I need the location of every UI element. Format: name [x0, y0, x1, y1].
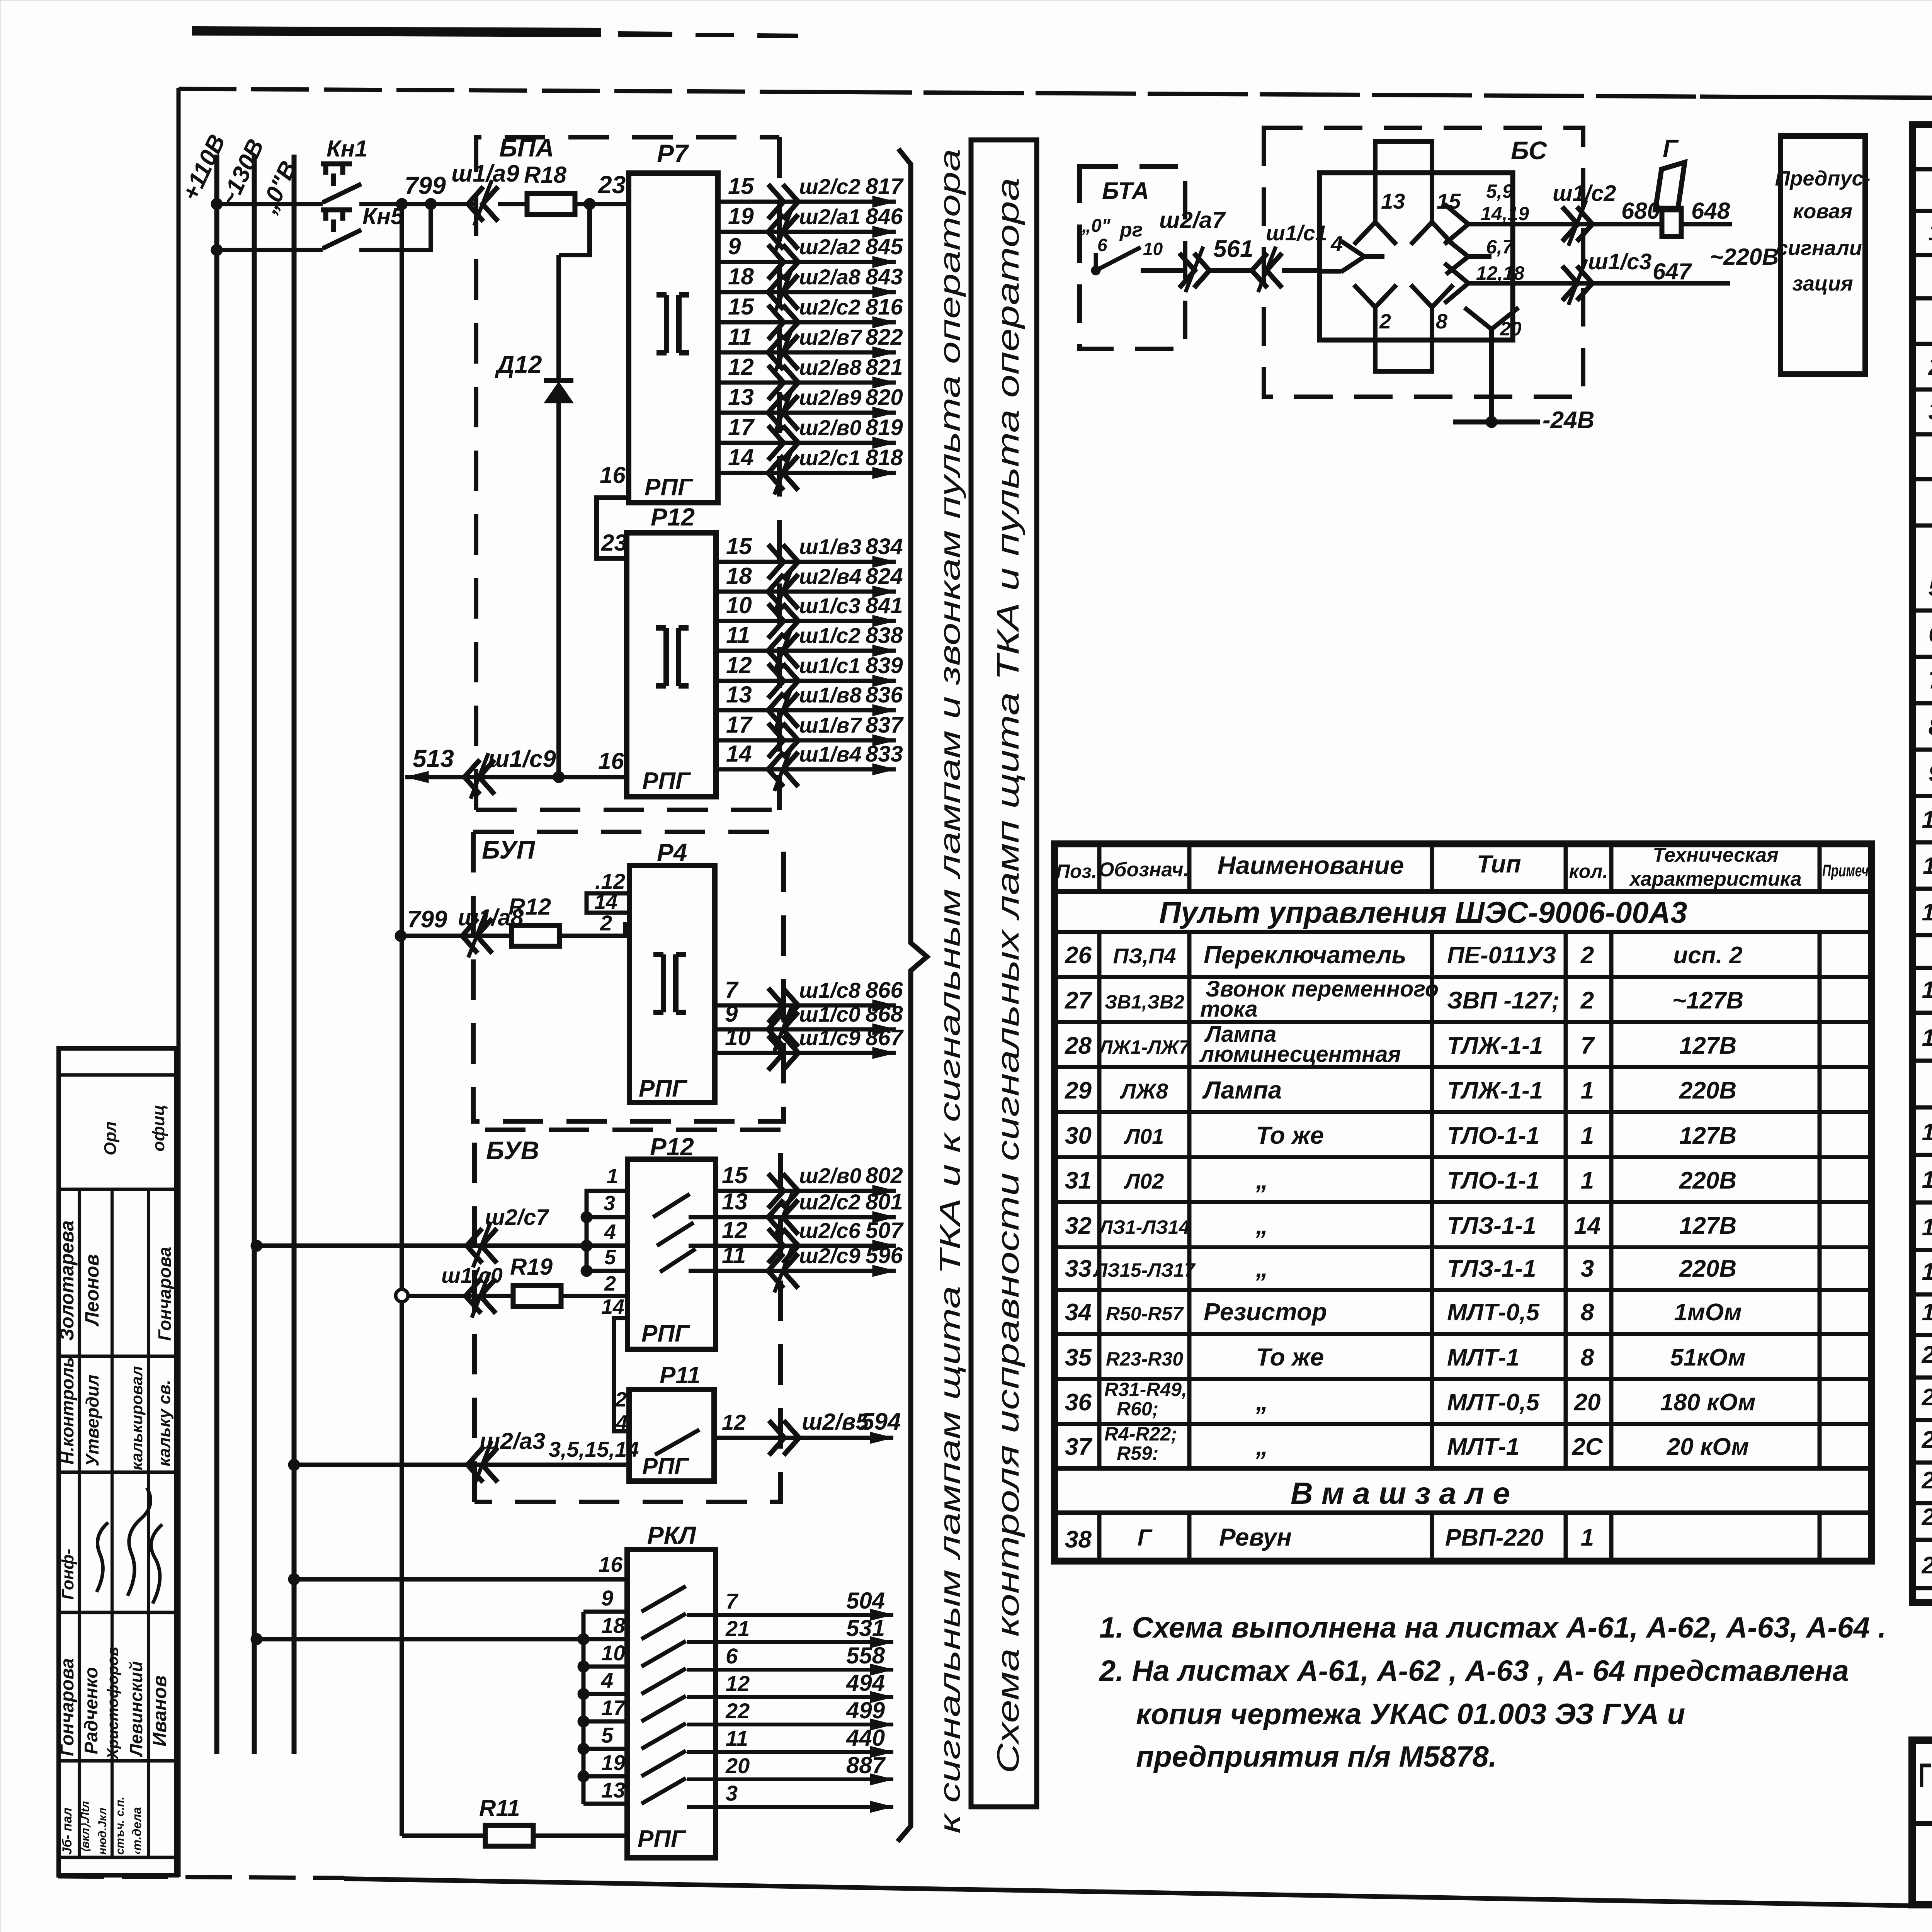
svg-text:Резистор: Резистор	[1204, 1298, 1327, 1326]
wire 0V bus to RKL pin16	[288, 1573, 300, 1585]
svg-text:13: 13	[728, 384, 754, 410]
svg-text:1. Схема выполнена на листа: 1. Схема выполнена на листах А-61, А-62,…	[1099, 1611, 1886, 1644]
bus "0"V	[292, 155, 297, 1754]
svg-text:РВП-220: РВП-220	[1445, 1524, 1544, 1551]
svg-text:9: 9	[601, 1586, 613, 1610]
wire sh2/a3 from bus to P11	[288, 1459, 300, 1471]
svg-text:Гонф-: Гонф-	[58, 1549, 77, 1600]
svg-text:18: 18	[601, 1613, 626, 1638]
svg-text:Переключатель: Переключатель	[1204, 941, 1406, 969]
svg-text:817: 817	[866, 174, 904, 199]
wire +110V to Kn1	[217, 202, 323, 206]
svg-text:31: 31	[1065, 1167, 1092, 1194]
resistor R11 wire	[402, 1833, 488, 1838]
revision stamp table	[59, 1048, 177, 1875]
svg-text:Гончарова: Гончарова	[155, 1247, 175, 1341]
bus +110V	[214, 155, 219, 1754]
svg-text:4: 4	[616, 1411, 628, 1434]
svg-text:801: 801	[866, 1189, 903, 1214]
svg-text:БУП: БУП	[482, 835, 536, 864]
connector arrow sh1/a9	[468, 187, 498, 221]
svg-text:Н.контроль: Н.контроль	[57, 1357, 77, 1464]
BS bottom loop	[1375, 340, 1432, 371]
svg-text:24: 24	[1922, 1504, 1932, 1531]
svg-text:6: 6	[1097, 235, 1107, 255]
svg-text:ш2/а7: ш2/а7	[1159, 207, 1226, 233]
wire ш2/с2 816 (pin 15)	[718, 320, 896, 325]
title block frame	[1912, 1740, 1932, 1905]
svg-text:Р12: Р12	[650, 1133, 694, 1161]
pushbutton Kn1	[323, 184, 361, 202]
svg-text:531: 531	[846, 1615, 885, 1641]
svg-text:кальку св.: кальку св.	[155, 1380, 174, 1466]
relay P12 box (BPA)	[627, 533, 716, 797]
wire sh1/a9 to R18	[498, 202, 527, 206]
svg-text:1: 1	[607, 1165, 618, 1188]
wire ш2/а8 843 (pin 18)	[718, 290, 896, 294]
svg-text:11: 11	[728, 324, 752, 350]
svg-text:ш2/а1: ш2/а1	[799, 204, 861, 229]
svg-text:ш2/в8: ш2/в8	[799, 355, 862, 379]
svg-text:4: 4	[604, 1220, 616, 1243]
wire ш1/в8 836 (pin 13)	[716, 708, 896, 713]
svg-text:868: 868	[866, 1002, 903, 1027]
svg-text:648: 648	[1691, 198, 1730, 224]
svg-text:РПГ: РПГ	[642, 1453, 690, 1479]
svg-text:6,7: 6,7	[1486, 236, 1514, 258]
wire node799 drop to R11	[400, 204, 404, 1291]
svg-text:799: 799	[405, 172, 446, 199]
wire ш2/в0 802 (pin 15)	[716, 1189, 896, 1193]
svg-text:2: 2	[1928, 354, 1932, 380]
svg-text:12: 12	[722, 1217, 748, 1243]
svg-text:ш2/с2: ш2/с2	[799, 174, 861, 199]
svg-text:16: 16	[599, 1552, 623, 1577]
svg-text:.12: .12	[595, 869, 625, 893]
svg-text:Техническая: Техническая	[1653, 844, 1778, 866]
BS fork 6,7	[1446, 239, 1492, 274]
svg-text:2. На листах А-61, А-62 , А-: 2. На листах А-61, А-62 , А-63 , А- 64 п…	[1099, 1655, 1849, 1687]
svg-text:ЗВ1,ЗВ2: ЗВ1,ЗВ2	[1105, 991, 1184, 1013]
resistor R18	[527, 194, 575, 214]
svg-text:Тип: Тип	[1477, 850, 1521, 878]
svg-text:17: 17	[728, 414, 755, 440]
svg-text:1: 1	[1581, 1167, 1594, 1194]
svg-text:R23-R30: R23-R30	[1106, 1348, 1183, 1370]
svg-text:11: 11	[1923, 853, 1932, 879]
svg-text:15: 15	[726, 533, 752, 559]
stamp signatures scribbles	[128, 1488, 151, 1596]
svg-text:ш2/с1: ш2/с1	[799, 446, 861, 470]
svg-text:ЛЖ1-ЛЖ7: ЛЖ1-ЛЖ7	[1098, 1036, 1190, 1058]
svg-text:18: 18	[726, 563, 752, 589]
svg-text:14: 14	[726, 741, 752, 767]
svg-text:ТЛЗ-1-1: ТЛЗ-1-1	[1447, 1213, 1536, 1239]
svg-text:ПЗ,П4: ПЗ,П4	[1113, 944, 1176, 968]
svg-text:9: 9	[1929, 760, 1932, 787]
svg-text:866: 866	[866, 978, 903, 1003]
svg-text:R31-R49,: R31-R49,	[1104, 1379, 1187, 1400]
svg-text:3: 3	[726, 1781, 738, 1805]
svg-text:ш1/в7: ш1/в7	[799, 713, 862, 737]
svg-text:20: 20	[725, 1753, 750, 1778]
wire ш1/с2 838 (pin 11)	[716, 649, 896, 653]
P12(BUV) left pin collector	[587, 1191, 628, 1271]
svg-text:МЛТ-1: МЛТ-1	[1447, 1344, 1519, 1371]
svg-text:Левинский: Левинский	[126, 1661, 146, 1757]
BS inner box	[1320, 173, 1513, 340]
svg-text:20: 20	[1500, 318, 1522, 340]
svg-text:833: 833	[866, 742, 903, 767]
svg-text:504: 504	[846, 1588, 885, 1614]
svg-text:13: 13	[1381, 189, 1405, 213]
svg-text:ш2/с2: ш2/с2	[799, 295, 861, 319]
svg-text:ковая: ковая	[1793, 200, 1852, 223]
svg-text:821: 821	[866, 355, 903, 380]
node 799 on drop wire	[395, 930, 406, 942]
svg-text:ш2/с9: ш2/с9	[799, 1243, 861, 1268]
wire ш1/с1 839 (pin 12)	[716, 679, 896, 683]
svg-text:R50-R57: R50-R57	[1106, 1303, 1184, 1325]
svg-text:рг: рг	[1119, 219, 1143, 241]
svg-text:8: 8	[1929, 714, 1932, 740]
svg-text:R19: R19	[510, 1254, 553, 1280]
svg-text:2: 2	[1580, 942, 1594, 969]
svg-text:ш2/с6: ш2/с6	[799, 1218, 861, 1243]
svg-text:R18: R18	[524, 162, 567, 188]
svg-text:818: 818	[866, 445, 903, 470]
svg-text:5: 5	[601, 1723, 614, 1747]
box pre-start signalling	[1781, 136, 1865, 374]
svg-text:R11: R11	[479, 1795, 520, 1821]
svg-text:Р12: Р12	[651, 503, 695, 531]
svg-text:819: 819	[866, 415, 903, 440]
svg-text:ш1/с9: ш1/с9	[799, 1026, 861, 1050]
svg-text:2: 2	[600, 911, 612, 935]
wire +110V to Kn5	[217, 248, 323, 252]
svg-text:22: 22	[725, 1699, 750, 1723]
svg-text:БПА: БПА	[499, 133, 554, 162]
svg-text:17: 17	[601, 1696, 626, 1720]
BS fork 5,9 14,19	[1444, 204, 1499, 244]
svg-text:23: 23	[601, 530, 627, 556]
svg-text:ТЛО-1-1: ТЛО-1-1	[1447, 1167, 1539, 1194]
svg-text:ш2/в7: ш2/в7	[799, 325, 862, 349]
svg-text:Золотарева: Золотарева	[56, 1220, 78, 1341]
svg-text:28: 28	[1065, 1032, 1092, 1059]
P7 pin16 to P12 pin23 jog wire	[597, 498, 629, 558]
svg-text:офиц: офиц	[149, 1105, 168, 1151]
svg-text:18: 18	[728, 264, 754, 289]
svg-text:~127В: ~127В	[1672, 987, 1743, 1014]
relay P11 box	[629, 1389, 714, 1481]
svg-text:15: 15	[728, 173, 754, 199]
svg-text:846: 846	[866, 204, 903, 229]
svg-text:11: 11	[726, 1726, 748, 1750]
contact symbol P4	[653, 954, 686, 1012]
svg-text:РКЛ: РКЛ	[647, 1521, 697, 1549]
svg-text:ЗВП -127;: ЗВП -127;	[1447, 987, 1560, 1014]
svg-text:838: 838	[866, 623, 903, 648]
svg-text:ш2/в4: ш2/в4	[799, 564, 861, 588]
svg-text:4: 4	[601, 1668, 613, 1692]
BS pin20 to -24V	[1489, 340, 1494, 422]
svg-text:499: 499	[846, 1697, 885, 1723]
svg-text:843: 843	[866, 264, 903, 289]
svg-text:ш1/в4: ш1/в4	[799, 742, 861, 766]
svg-text:21: 21	[1922, 1384, 1932, 1411]
svg-text:13: 13	[726, 682, 752, 707]
node on +110V bus (wire to Kn1)	[211, 198, 223, 210]
svg-text:8: 8	[1581, 1344, 1594, 1371]
svg-text:Радченко: Радченко	[81, 1667, 102, 1754]
svg-text:802: 802	[866, 1163, 903, 1188]
BS top loop	[1375, 141, 1432, 173]
svg-text:836: 836	[866, 682, 903, 707]
svg-text:„: „	[1255, 1166, 1268, 1194]
svg-text:ш1/с0: ш1/с0	[799, 1002, 861, 1026]
svg-text:12: 12	[722, 1410, 746, 1434]
svg-text:16: 16	[598, 748, 624, 774]
svg-text:ш1/с3: ш1/с3	[799, 594, 861, 618]
svg-text:867: 867	[866, 1025, 904, 1050]
svg-text:13: 13	[601, 1778, 625, 1802]
svg-text:„: „	[1255, 1211, 1268, 1239]
svg-text:816: 816	[866, 294, 903, 320]
svg-text:Утвердил: Утвердил	[82, 1374, 102, 1466]
svg-text:513: 513	[413, 745, 454, 772]
relay P4 box	[629, 866, 715, 1102]
svg-text:Предпус-: Предпус-	[1775, 167, 1871, 190]
svg-text:ЛЗ15-ЛЗ17: ЛЗ15-ЛЗ17	[1093, 1259, 1196, 1281]
parts table (panels and cabinet)	[1913, 125, 1932, 1603]
svg-text:1: 1	[1581, 1122, 1594, 1149]
wire ш2/в8 821 (pin 12)	[718, 381, 896, 385]
svg-text:МЛТ-1: МЛТ-1	[1447, 1434, 1519, 1460]
connector sh1/c1	[1252, 253, 1282, 288]
wire ш2/с2 817 (pin 15)	[718, 200, 896, 204]
svg-text:14: 14	[594, 890, 617, 913]
svg-text:37: 37	[1065, 1434, 1092, 1460]
connector sh2/a7 561	[1179, 253, 1209, 288]
svg-text:440: 440	[846, 1725, 885, 1751]
svg-text:ш2/в5: ш2/в5	[802, 1409, 869, 1435]
contact symbol P12	[656, 628, 689, 686]
svg-text:„0": „0"	[1082, 216, 1111, 236]
svg-text:3: 3	[1929, 398, 1932, 425]
svg-text:7: 7	[726, 1589, 739, 1613]
svg-text:БТА: БТА	[1102, 178, 1149, 204]
svg-text:887: 887	[846, 1752, 886, 1778]
svg-text:841: 841	[866, 593, 903, 618]
svg-text:РПГ: РПГ	[642, 768, 691, 794]
svg-text:РПГ: РПГ	[645, 474, 694, 501]
svg-text:R60;: R60;	[1117, 1398, 1158, 1420]
svg-text:15: 15	[728, 294, 754, 320]
wire ш1/с9 867 (pin 10)	[715, 1051, 896, 1055]
svg-text:„: „	[1255, 1254, 1268, 1282]
svg-text:Гончарова: Гончарова	[57, 1658, 78, 1756]
svg-text:2: 2	[615, 1388, 627, 1411]
svg-text:Поз.: Поз.	[1056, 861, 1097, 882]
svg-text:Д12: Д12	[495, 350, 542, 378]
contact symbol P7	[656, 295, 689, 353]
svg-text:РПГ: РПГ	[639, 1075, 688, 1102]
wire ш2/в9 820 (pin 13)	[718, 411, 896, 415]
BS fork 4	[1341, 241, 1384, 272]
svg-text:тока: тока	[1200, 997, 1258, 1022]
svg-text:Р11: Р11	[660, 1362, 701, 1389]
svg-text:6: 6	[1929, 621, 1932, 648]
svg-text:8: 8	[1581, 1299, 1594, 1326]
svg-text:МЛТ-0,5: МЛТ-0,5	[1447, 1299, 1540, 1326]
svg-text:11: 11	[726, 622, 750, 648]
BS fork 13	[1354, 173, 1396, 245]
svg-text:820: 820	[866, 385, 903, 410]
svg-text:ш2/в0: ш2/в0	[799, 1163, 861, 1188]
svg-text:3: 3	[604, 1192, 615, 1215]
svg-text:13: 13	[1922, 977, 1932, 1003]
cable bracket brace	[898, 149, 927, 1842]
svg-text:То же: То же	[1256, 1343, 1324, 1371]
svg-text:-24В: -24В	[1543, 407, 1594, 434]
P12(BUV) switch blades	[653, 1194, 690, 1217]
svg-text:845: 845	[866, 234, 903, 259]
svg-text:БС: БС	[1511, 136, 1548, 165]
svg-text:6: 6	[726, 1644, 738, 1668]
svg-text:исп. 2: исп. 2	[1673, 942, 1742, 969]
svg-text:20: 20	[1922, 1342, 1932, 1368]
svg-text:Ревун: Ревун	[1219, 1523, 1292, 1551]
svg-text:То же: То же	[1256, 1121, 1324, 1149]
svg-text:20: 20	[1574, 1389, 1601, 1416]
wire ш2/с6 507 (pin 12)	[689, 1244, 896, 1248]
svg-text:30: 30	[1065, 1122, 1092, 1149]
svg-text:51кОм: 51кОм	[1670, 1344, 1745, 1371]
svg-text:15: 15	[722, 1162, 748, 1188]
wire Kn1 to node 799	[359, 202, 476, 206]
svg-text:R59:: R59:	[1117, 1442, 1158, 1464]
svg-text:ш2/в9: ш2/в9	[799, 385, 861, 410]
svg-text:10: 10	[726, 592, 752, 618]
svg-text:32: 32	[1065, 1213, 1092, 1239]
wire ш2/с9 596 (pin 11)	[689, 1269, 896, 1273]
svg-text:ш2/а8: ш2/а8	[799, 265, 861, 289]
wire D12 down to node 513 junction	[556, 403, 561, 777]
svg-text:Примеч: Примеч	[1822, 861, 1869, 880]
svg-text:18: 18	[1922, 1259, 1932, 1285]
svg-text:507: 507	[866, 1218, 904, 1243]
svg-text:10: 10	[725, 1024, 751, 1050]
svg-text:17: 17	[1922, 1214, 1932, 1241]
BS fork 12,18	[1444, 263, 1499, 303]
svg-text:9: 9	[728, 233, 741, 259]
svg-text:33: 33	[1065, 1255, 1092, 1282]
svg-text:ТЛО-1-1: ТЛО-1-1	[1447, 1122, 1539, 1149]
svg-text:11: 11	[722, 1242, 746, 1268]
svg-text:23: 23	[598, 171, 626, 199]
svg-text:ш1/с3: ш1/с3	[1588, 249, 1651, 274]
node 23 before P7	[584, 198, 595, 210]
svg-text:8: 8	[1436, 310, 1447, 333]
svg-text:Л01: Л01	[1124, 1124, 1164, 1148]
svg-text:19: 19	[601, 1750, 625, 1775]
bus ~130V	[252, 155, 257, 1754]
svg-text:834: 834	[866, 534, 903, 559]
RKL left pin collector	[582, 1612, 586, 1804]
wire into P7 pin 23	[575, 202, 629, 206]
svg-text:14: 14	[601, 1295, 624, 1318]
wire ш1/с3 841 (pin 10)	[716, 619, 896, 623]
svg-text:ТЛЗ-1-1: ТЛЗ-1-1	[1447, 1255, 1536, 1282]
wire ш1/с0 868 (pin 9)	[715, 1027, 896, 1032]
svg-text:15: 15	[1922, 1119, 1932, 1146]
svg-text:Р4: Р4	[657, 838, 687, 866]
svg-text:Иванов: Иванов	[149, 1675, 170, 1747]
svg-text:19: 19	[1922, 1299, 1932, 1326]
svg-text:ЛЗ1-ЛЗ14: ЛЗ1-ЛЗ14	[1098, 1216, 1189, 1238]
wire sh1/a8 with R12 into P4 pin2	[462, 918, 492, 953]
svg-text:1: 1	[1581, 1524, 1594, 1551]
svg-text:В м а ш з а л е: В м а ш з а л е	[1291, 1476, 1510, 1510]
wire ш1/с8 866 (pin 7)	[715, 1003, 896, 1008]
svg-text:ш1/с8: ш1/с8	[799, 978, 861, 1002]
svg-text:596: 596	[866, 1243, 903, 1268]
svg-text:Леонов: Леонов	[81, 1254, 103, 1327]
svg-text:220В: 220В	[1679, 1255, 1736, 1282]
svg-text:2: 2	[604, 1272, 616, 1295]
wire ш2/с1 818 (pin 14)	[718, 471, 896, 475]
svg-text:4: 4	[1330, 231, 1343, 256]
svg-text:нюд.Јкл: нюд.Јкл	[96, 1808, 109, 1855]
BS fork 8	[1411, 285, 1453, 340]
svg-text:сигнали-: сигнали-	[1776, 236, 1869, 260]
svg-text:стъч. с.п.: стъч. с.п.	[114, 1797, 126, 1855]
svg-text:38: 38	[1065, 1526, 1092, 1553]
svg-text:16: 16	[600, 462, 626, 488]
svg-text:23: 23	[1922, 1467, 1932, 1494]
svg-text:характеристика: характеристика	[1628, 868, 1801, 890]
svg-text:Кн1: Кн1	[327, 136, 368, 162]
svg-text:ш1/в8: ш1/в8	[799, 683, 862, 707]
block BUP dashed outline	[473, 830, 784, 834]
svg-text:ш2/с2: ш2/с2	[799, 1190, 861, 1214]
svg-text:19: 19	[728, 203, 754, 229]
svg-text:люминесцентная: люминесцентная	[1199, 1042, 1401, 1067]
relay P12 box (BUV)	[628, 1159, 716, 1349]
svg-text:16: 16	[1922, 1167, 1932, 1193]
wire sh1/c0 R19 to P12 pin2	[408, 1294, 513, 1298]
svg-text:ш1/с2: ш1/с2	[1553, 181, 1616, 206]
svg-text:Лампа: Лампа	[1202, 1076, 1282, 1104]
svg-text:ш1/с0: ш1/с0	[441, 1263, 503, 1287]
svg-text:ш1/с1: ш1/с1	[799, 653, 861, 678]
svg-text:29: 29	[1065, 1077, 1092, 1104]
svg-text:предприятия п/я М5878.: предприятия п/я М5878.	[1136, 1740, 1497, 1773]
svg-text:12: 12	[726, 1671, 750, 1696]
svg-text:12,18: 12,18	[1476, 262, 1524, 284]
svg-text:2: 2	[1580, 987, 1594, 1014]
block BTA dashed outline	[1080, 167, 1185, 349]
svg-text:22: 22	[1922, 1427, 1932, 1453]
node 799	[396, 198, 408, 210]
wire ш2/а1 846 (pin 19)	[718, 230, 896, 234]
svg-text:34: 34	[1065, 1299, 1092, 1326]
wire ш2/в7 822 (pin 11)	[718, 350, 896, 355]
wire Kn5 up to node 799	[359, 204, 431, 250]
svg-text:„: „	[1255, 1388, 1268, 1416]
relay RKL box	[627, 1549, 716, 1858]
